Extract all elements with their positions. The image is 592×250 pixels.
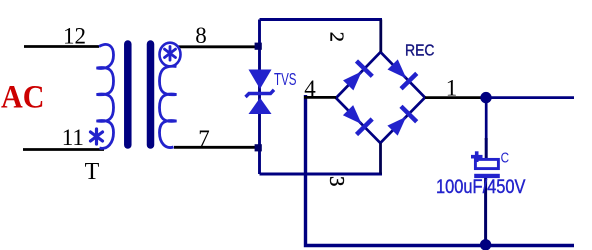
svg-text:AC: AC: [1, 79, 45, 115]
svg-text:7: 7: [198, 126, 210, 151]
svg-text:1: 1: [446, 76, 458, 101]
svg-text:12: 12: [63, 24, 86, 49]
svg-text:C: C: [501, 149, 510, 166]
svg-text:4: 4: [304, 76, 316, 101]
svg-text:8: 8: [195, 23, 207, 48]
svg-text:2: 2: [325, 32, 347, 42]
svg-text:REC: REC: [405, 43, 435, 60]
svg-text:TVS: TVS: [274, 69, 297, 89]
svg-text:11: 11: [62, 125, 84, 150]
svg-text:T: T: [85, 159, 100, 185]
svg-text:100uF/450V: 100uF/450V: [436, 177, 526, 198]
svg-text:3: 3: [325, 176, 349, 187]
